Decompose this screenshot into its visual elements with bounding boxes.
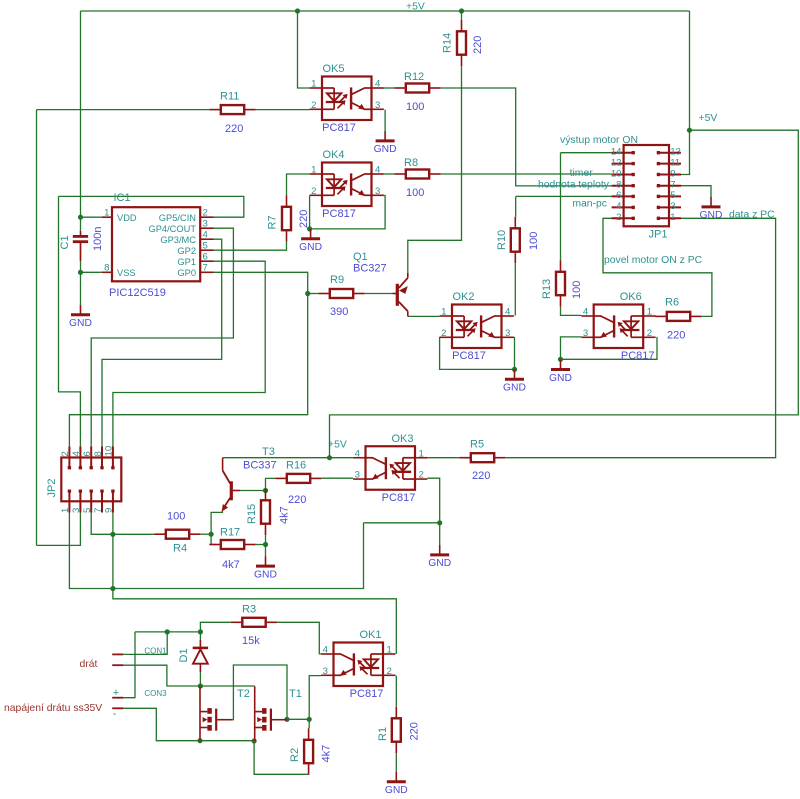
wire left +5V/VDD rail (80, 11, 82, 231)
svg-text:2: 2 (203, 208, 208, 219)
svg-text:PC817: PC817 (350, 688, 384, 700)
svg-text:+: + (113, 687, 119, 699)
ground OK3 (430, 545, 449, 555)
resistor R17 (209, 540, 255, 549)
wire GP2 to R7 (214, 242, 287, 250)
wire GP1 to JP2 pin10 (113, 261, 265, 446)
svg-text:GND: GND (549, 373, 572, 384)
svg-text:D1: D1 (178, 648, 190, 662)
svg-text:R7: R7 (267, 215, 279, 229)
svg-text:3: 3 (583, 328, 588, 339)
svg-text:R16: R16 (286, 460, 306, 472)
wire JP2 pin3 to left column (37, 513, 81, 546)
svg-text:GND: GND (254, 569, 277, 580)
wire OK3 gnd link (364, 522, 440, 524)
wire R15 bottom to GND (265, 535, 267, 556)
svg-text:R11: R11 (220, 91, 239, 103)
svg-text:4: 4 (323, 645, 329, 656)
wire OK4 pin2 down (309, 196, 311, 229)
wire OK3 pin1 to R5 (427, 457, 459, 459)
svg-text:220: 220 (409, 722, 421, 740)
wire VSS to IC1 pin8 (81, 271, 102, 273)
wire T2 gate to T1 drain link (232, 665, 287, 720)
wire OK6 pin2 gnd loop (561, 337, 658, 359)
svg-text:OK4: OK4 (322, 149, 344, 161)
svg-text:R3: R3 (242, 604, 256, 616)
ground JP1 pin7 (702, 197, 721, 207)
resistor R6 (655, 312, 701, 321)
junction OK6 gnd (558, 357, 563, 362)
wire vystup motor ON to JP1 pin14 (561, 152, 612, 154)
transistor T2 (n-mosfet) (200, 686, 232, 740)
wire C1 bottom to GND (80, 243, 82, 305)
svg-text:R15: R15 (246, 504, 258, 524)
svg-text:100: 100 (528, 232, 540, 250)
svg-text:OK3: OK3 (391, 433, 413, 445)
wire R10 top (515, 196, 517, 216)
wire JP1 pin7 to GND (681, 186, 711, 198)
svg-text:R2: R2 (289, 748, 301, 762)
wire R4 to emitter dot (201, 533, 211, 535)
svg-text:100: 100 (571, 281, 583, 299)
ground OK6 (551, 360, 570, 370)
svg-text:100: 100 (167, 511, 185, 523)
svg-text:1: 1 (670, 212, 675, 223)
wire D1 cathode link (199, 632, 201, 640)
svg-text:OK1: OK1 (359, 629, 381, 641)
ground OK5 (376, 131, 395, 141)
svg-text:GND: GND (69, 318, 92, 329)
svg-text:3: 3 (670, 201, 675, 212)
svg-text:4: 4 (355, 448, 361, 459)
transistor T1 (n-mosfet) (255, 686, 287, 741)
junction R15/R17 node (263, 542, 268, 547)
wire R16 to OK3 pin3 (322, 477, 353, 479)
wire T3 base node (240, 490, 265, 492)
svg-text:T2: T2 (237, 688, 250, 700)
svg-text:R14: R14 (442, 33, 454, 53)
wire R7 to OK4 pin1 (287, 174, 310, 195)
junction +5V right (687, 128, 692, 133)
svg-text:2: 2 (419, 470, 424, 481)
svg-text:220: 220 (225, 123, 243, 135)
svg-text:GP0: GP0 (177, 268, 196, 278)
svg-text:1: 1 (441, 307, 446, 318)
svg-text:4: 4 (71, 451, 82, 457)
svg-text:4: 4 (583, 307, 589, 318)
wire to OK1 pin3 (309, 676, 321, 720)
resistor R8 (394, 170, 440, 179)
wire base node to R16 (266, 478, 276, 490)
wire GP4 to JP2 pin6 (91, 228, 233, 446)
svg-text:PC817: PC817 (382, 492, 416, 504)
junction +5V OK3 (327, 455, 332, 460)
svg-text:1: 1 (647, 307, 652, 318)
svg-text:4k7: 4k7 (321, 745, 333, 763)
svg-text:VSS: VSS (117, 268, 136, 278)
wire +5V right drop (689, 11, 691, 130)
wire povel motor ON z PC loop (603, 218, 712, 316)
svg-text:390: 390 (330, 306, 348, 318)
svg-text:GND: GND (700, 210, 723, 221)
svg-text:220: 220 (472, 36, 484, 54)
svg-text:5: 5 (670, 190, 675, 201)
junction JP2 pin9/R4 (110, 532, 115, 537)
resistor R11 (209, 105, 255, 114)
svg-text:hodnota teploty: hodnota teploty (538, 180, 610, 191)
svg-text:12: 12 (611, 157, 622, 168)
svg-text:10: 10 (611, 168, 622, 179)
svg-text:R12: R12 (404, 71, 424, 83)
wire vystup vertical to R13 (560, 153, 562, 261)
junction T1 source (252, 738, 257, 743)
opto-coupler OK4 (310, 163, 384, 207)
connector CON3 (112, 698, 123, 709)
svg-text:9: 9 (670, 168, 675, 179)
wire OK3 pin2 down (427, 478, 439, 523)
wire R8 to JP1 pin10 timer (441, 173, 612, 175)
junction top rail A (295, 8, 300, 13)
ground R15/R17 (256, 556, 275, 566)
wire GP3 to JP2 pin8 (102, 239, 222, 446)
resistor R13 (556, 260, 565, 306)
wire R17 to R15 node (256, 544, 266, 546)
wire CON1/CON3 link (123, 632, 135, 698)
svg-text:BC327: BC327 (353, 263, 387, 275)
svg-text:100n: 100n (92, 227, 104, 251)
svg-text:R1: R1 (377, 727, 389, 741)
svg-text:220: 220 (472, 470, 490, 482)
resistor R14 (457, 20, 466, 66)
wire GP0 to JP2 pin2 (69, 272, 307, 446)
transistor Q1 BC327 (pnp) (392, 273, 408, 316)
ground OK4 (301, 229, 320, 239)
svg-text:+5V: +5V (406, 2, 425, 13)
wire GP5 to JP2 pin4 (59, 196, 81, 446)
svg-text:4: 4 (203, 230, 209, 241)
resistor R2 (304, 728, 313, 774)
svg-text:R9: R9 (330, 274, 344, 286)
svg-text:1: 1 (311, 165, 316, 176)
svg-text:15k: 15k (242, 635, 260, 647)
opto-coupler OK1 (321, 643, 395, 687)
junction R2 top (307, 717, 312, 722)
junction T3 emitter node (209, 532, 214, 537)
svg-text:3: 3 (505, 328, 510, 339)
svg-text:3: 3 (375, 100, 380, 111)
resistor R10 (511, 217, 520, 263)
junction JP2 pin9 cross (110, 586, 115, 591)
junction OK2 gnd (512, 367, 517, 372)
wire +5V to OK3 pin4 (330, 457, 354, 459)
wire VDD to IC1 pin1 (81, 216, 102, 218)
wire Q1 collector to OK2 pin1 (408, 315, 440, 317)
svg-text:5: 5 (82, 508, 93, 513)
svg-text:4k7: 4k7 (279, 506, 291, 524)
svg-text:2: 2 (387, 666, 392, 677)
wire R1 to GND (395, 753, 397, 772)
resistor R16 (275, 474, 321, 483)
junction OK4 gnd (307, 226, 312, 231)
svg-text:220: 220 (667, 330, 685, 342)
diode D1 (193, 640, 208, 672)
wire OK4 pin3 gnd loop (310, 196, 386, 229)
wire CON1 pin2 to D1 bottom (123, 665, 200, 686)
connector JP2 (61, 446, 121, 512)
wire GP0 to R9 (308, 293, 319, 295)
wire R11 net left (37, 109, 210, 111)
junction OK3 gnd (437, 520, 442, 525)
svg-text:3: 3 (323, 666, 328, 677)
svg-text:9: 9 (104, 508, 115, 513)
resistor R4 (154, 530, 200, 539)
junction T3 base node (263, 488, 268, 493)
resistor R1 (392, 707, 401, 753)
svg-text:GP3/MC: GP3/MC (160, 235, 196, 245)
junction CON1 pin1 (165, 629, 170, 634)
wire R9 to Q1 base (365, 293, 393, 295)
wire JP2 pin5 to R4 (91, 513, 154, 535)
svg-text:1: 1 (104, 208, 109, 219)
junction top rail B (459, 8, 464, 13)
svg-text:GP1: GP1 (177, 257, 196, 267)
svg-text:6: 6 (203, 252, 208, 263)
svg-text:T3: T3 (262, 446, 275, 458)
svg-text:8: 8 (104, 263, 109, 274)
wire D1 bottom green (199, 672, 201, 686)
svg-text:JP1: JP1 (649, 229, 668, 241)
svg-text:PC817: PC817 (322, 122, 356, 134)
wire R14 to Q1 emitter (408, 66, 462, 273)
wire OK6 pin3 to gnd (561, 337, 582, 359)
svg-text:4: 4 (616, 201, 622, 212)
junction T2 source (197, 738, 202, 743)
svg-text:4: 4 (375, 79, 381, 90)
svg-text:R5: R5 (470, 439, 484, 451)
resistor R5 (459, 453, 505, 462)
resistor R3 (231, 618, 277, 627)
resistor R7 (282, 195, 291, 241)
wire R3 to OK1 pin4 (277, 622, 321, 654)
wire +5V top rail (81, 10, 690, 12)
resistor R12 (394, 84, 440, 93)
resistor R9 (318, 289, 364, 298)
svg-text:man-pc: man-pc (572, 199, 607, 210)
wire OK2 pin2 gnd loop (440, 337, 515, 370)
junction VDD (78, 215, 83, 220)
opto-coupler OK6 (581, 305, 655, 349)
svg-text:CON3: CON3 (144, 689, 167, 698)
svg-text:BC337: BC337 (243, 460, 277, 472)
svg-text:drát: drát (80, 659, 98, 670)
wire OK2 pin3 to gnd (514, 337, 516, 370)
svg-text:2: 2 (441, 328, 446, 339)
svg-text:1: 1 (419, 448, 424, 459)
svg-text:GND: GND (374, 144, 397, 155)
svg-text:3: 3 (203, 219, 208, 230)
svg-text:6: 6 (616, 190, 621, 201)
wire JP2 pin1 to OK3 gnd link (69, 513, 363, 589)
wire R10 to JP1 pin6 (516, 195, 612, 197)
svg-text:8: 8 (616, 180, 621, 191)
junction D1/T2 drain (198, 683, 203, 688)
wire T1 gate node (287, 718, 309, 720)
junction VSS (78, 270, 83, 275)
svg-text:VDD: VDD (117, 213, 137, 223)
IC IC1 PIC12C519 (102, 207, 214, 281)
svg-text:R6: R6 (665, 297, 679, 309)
wire JP1 pin9 to +5V (681, 130, 690, 174)
svg-text:R17: R17 (220, 527, 240, 539)
svg-text:3: 3 (71, 508, 82, 513)
svg-text:OK2: OK2 (452, 291, 474, 303)
svg-text:5: 5 (203, 241, 208, 252)
wire JP2 pin9 to OK1 pin1 (113, 513, 396, 654)
connector JP1 (612, 145, 681, 226)
wire left column net JP2 pin3 (36, 110, 38, 546)
wire R13 to OK6 pin4 (561, 307, 582, 316)
svg-text:CON1: CON1 (144, 647, 167, 656)
opto-coupler OK3 (353, 446, 427, 490)
svg-text:1: 1 (387, 645, 392, 656)
svg-text:100: 100 (406, 101, 424, 113)
svg-text:OK5: OK5 (322, 63, 344, 75)
svg-text:PC817: PC817 (452, 350, 486, 362)
resistor R15 (261, 489, 270, 535)
svg-text:220: 220 (298, 210, 310, 228)
svg-text:R8: R8 (404, 157, 418, 169)
wire R12 to JP1 pin8 hodnota teploty (441, 88, 612, 186)
svg-text:JP2: JP2 (46, 479, 58, 498)
svg-text:IC1: IC1 (114, 192, 131, 204)
svg-text:PC817: PC817 (621, 350, 655, 362)
wire +5V to R14 (461, 11, 463, 20)
wire CON1 pin1 up (123, 632, 167, 655)
svg-text:+5V: +5V (699, 113, 718, 124)
svg-text:2: 2 (647, 328, 652, 339)
svg-text:3: 3 (375, 186, 380, 197)
svg-text:1: 1 (60, 508, 71, 513)
svg-text:6: 6 (82, 451, 93, 456)
ground below C1 (71, 305, 90, 315)
svg-text:timer: timer (570, 168, 594, 179)
wire +5V right loop (330, 130, 799, 458)
svg-text:GP5/CIN: GP5/CIN (159, 213, 196, 223)
svg-text:napájení drátu ss35V: napájení drátu ss35V (4, 703, 102, 714)
svg-text:4: 4 (505, 307, 511, 318)
wire OK5 pin3 to GND (384, 110, 386, 131)
svg-text:PC817: PC817 (322, 208, 356, 220)
wire GP5/CIN loop (59, 196, 244, 217)
svg-text:7: 7 (670, 180, 675, 191)
svg-text:7: 7 (93, 508, 104, 513)
wire OK1 pin2 to R1 (395, 676, 397, 707)
svg-text:+5V: +5V (328, 440, 347, 451)
wire R11 to OK5 pin2 (256, 109, 310, 111)
connector CON1 (112, 654, 123, 665)
junction R9 node (305, 291, 310, 296)
ground OK2 (505, 369, 524, 379)
junction T1 gate (284, 717, 289, 722)
svg-text:220: 220 (288, 494, 306, 506)
svg-text:Q1: Q1 (353, 251, 368, 263)
svg-text:C1: C1 (59, 235, 71, 249)
wire T1 drain net (200, 685, 254, 687)
wire OK5 pin4 to R12 (384, 87, 394, 89)
svg-text:2: 2 (616, 212, 621, 223)
svg-text:GP2: GP2 (177, 246, 196, 256)
svg-text:100: 100 (406, 187, 424, 199)
svg-text:10: 10 (104, 446, 115, 457)
opto-coupler OK2 (440, 305, 514, 349)
svg-text:GP4/COUT: GP4/COUT (148, 224, 196, 234)
wire CON3 minus rail (123, 708, 254, 740)
svg-text:7: 7 (203, 263, 208, 274)
svg-text:2: 2 (60, 451, 71, 456)
svg-text:8: 8 (93, 451, 104, 456)
wire data z PC to R5 (506, 218, 776, 457)
svg-text:-: - (113, 708, 117, 720)
svg-text:R10: R10 (496, 230, 508, 250)
svg-text:povel motor ON z PC: povel motor ON z PC (604, 255, 703, 266)
wire to R3 (200, 622, 230, 632)
opto-coupler OK5 (310, 77, 384, 121)
svg-text:PIC12C519: PIC12C519 (109, 287, 166, 299)
wire to R2 top (308, 719, 310, 728)
wire T3 collector to +5V rail (223, 457, 330, 459)
capacitor C1 (73, 231, 88, 261)
svg-text:R13: R13 (541, 279, 553, 299)
wire R10 to OK2 pin4 (514, 263, 516, 315)
ground R1 (387, 772, 406, 782)
junction D1 anode (198, 629, 203, 634)
svg-text:R4: R4 (173, 543, 187, 555)
svg-text:2: 2 (311, 100, 316, 111)
svg-text:1: 1 (311, 79, 316, 90)
svg-text:11: 11 (670, 157, 680, 168)
svg-text:GND: GND (299, 242, 322, 253)
wire OK4 pin4 to R8 (384, 173, 394, 175)
wire D1 anode rail (135, 631, 200, 633)
svg-text:14: 14 (611, 147, 622, 158)
svg-text:13: 13 (670, 147, 681, 158)
svg-text:4k7: 4k7 (222, 559, 240, 571)
wire OK3 to GND (439, 523, 441, 545)
svg-text:4: 4 (375, 165, 381, 176)
svg-text:výstup motor ON: výstup motor ON (560, 135, 638, 146)
svg-text:2: 2 (311, 186, 316, 197)
svg-text:OK6: OK6 (620, 291, 642, 303)
svg-text:data z PC: data z PC (729, 210, 775, 221)
wire to R2 bottom (254, 741, 309, 774)
svg-text:GND: GND (385, 785, 408, 796)
svg-text:GND: GND (428, 558, 451, 569)
wire T3 emitter to R17 (211, 510, 222, 545)
transistor T3 BC337 (npn) (222, 458, 241, 512)
svg-text:T1: T1 (289, 688, 302, 700)
wire +5V to OK5 pin1 (298, 11, 310, 88)
svg-text:GND: GND (503, 383, 526, 394)
svg-text:3: 3 (355, 470, 360, 481)
